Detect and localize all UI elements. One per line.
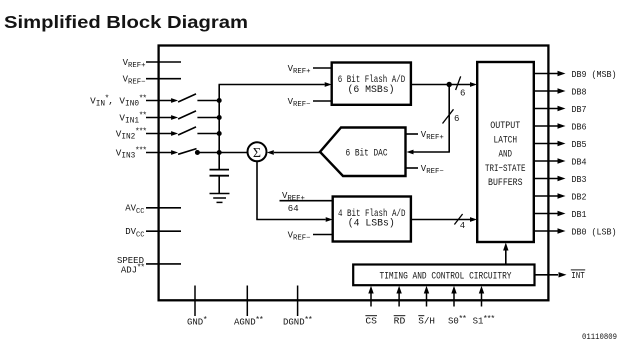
chip outline xyxy=(159,46,549,301)
svg-text:01110809: 01110809 xyxy=(582,332,617,342)
wire VIN0 stub xyxy=(146,100,172,102)
svg-text:INT: INT xyxy=(571,271,585,281)
junction dot bus row2 xyxy=(217,131,222,136)
junction dot bus row1 xyxy=(217,115,222,120)
wire DB3 xyxy=(534,178,558,180)
pin S/H stem xyxy=(426,293,428,307)
6-bit DAC shape xyxy=(320,128,406,177)
overline INT xyxy=(571,269,585,271)
switch S3 blade (closed) xyxy=(178,149,196,155)
wire DVCC stub xyxy=(146,230,181,232)
summing node sigma xyxy=(248,142,267,161)
svg-text:CC: CC xyxy=(136,231,144,239)
svg-text:DB3: DB3 xyxy=(572,175,587,185)
wire DB9 xyxy=(534,73,558,75)
svg-text:Simplified Block Diagram: Simplified Block Diagram xyxy=(4,12,248,32)
svg-text:AND: AND xyxy=(499,150,513,161)
arrowhead timing to latch xyxy=(503,243,508,251)
arrowhead DB9 xyxy=(558,71,566,76)
svg-text:AGND**: AGND** xyxy=(234,315,263,328)
svg-text:S/H: S/H xyxy=(418,317,435,327)
wire S2 to bus xyxy=(197,133,219,135)
arrowhead into latch (6) xyxy=(470,82,477,87)
svg-text:DV: DV xyxy=(125,227,136,237)
svg-text:DB2: DB2 xyxy=(572,192,587,202)
wire sigma down xyxy=(256,162,258,220)
svg-text:VREF−: VREF− xyxy=(421,164,444,176)
pin S0 stem xyxy=(453,293,455,307)
wire DB2 xyxy=(534,195,558,197)
svg-text:DB1: DB1 xyxy=(572,210,587,220)
arrowhead into 6-bit flash xyxy=(325,82,332,87)
svg-text:DB6: DB6 xyxy=(572,122,587,132)
svg-text:VIN*, VIN0**: VIN*, VIN0** xyxy=(90,93,146,108)
svg-text:DGND**: DGND** xyxy=(283,315,312,328)
arrowhead DB5 xyxy=(558,141,566,146)
output latch box xyxy=(477,62,534,242)
arrowhead into sigma xyxy=(267,150,274,155)
wire DB1 xyxy=(534,213,558,215)
4-bit flash A/D box xyxy=(333,197,411,242)
overline RD xyxy=(394,315,406,317)
svg-text:Σ: Σ xyxy=(253,146,261,161)
arrowhead RD xyxy=(396,286,401,294)
svg-text:VIN2***: VIN2*** xyxy=(116,126,147,141)
arrowhead S1 xyxy=(479,286,484,294)
wire SPEED ADJ stub xyxy=(146,263,181,265)
wire INT xyxy=(535,274,559,276)
arrowhead DB7 xyxy=(558,106,566,111)
switch S1 blade xyxy=(178,111,196,119)
wire mux bus vertical xyxy=(218,85,220,170)
wire bus to 6-bit flash xyxy=(219,84,325,86)
bus slash 6 (horizontal line) xyxy=(456,76,461,90)
wire VREF+/64 to 4-bit flash xyxy=(280,200,333,202)
switch S1 arrowhead xyxy=(171,115,178,120)
wire VREF+ stub to flash1 xyxy=(313,67,332,69)
svg-text:OUTPUT: OUTPUT xyxy=(490,121,520,132)
wire VREF+ stub xyxy=(146,61,181,63)
svg-text:LATCH: LATCH xyxy=(494,135,518,146)
wire VREF+ stub DAC xyxy=(406,133,419,135)
wire DB0 xyxy=(534,230,558,232)
pin AGND stub xyxy=(246,286,248,317)
pin CS stem xyxy=(370,293,372,307)
switch S0 blade xyxy=(178,94,196,102)
arrowhead into latch (4) xyxy=(470,217,477,222)
wire VIN3 stub xyxy=(146,152,172,154)
arrowhead DB4 xyxy=(558,158,566,163)
pin RD stem xyxy=(398,293,400,307)
wire VREF- stub xyxy=(146,78,181,80)
ground symbol xyxy=(210,193,230,195)
switch S3 arrowhead xyxy=(171,150,178,155)
wire sigma to 4-bit flash xyxy=(256,219,325,221)
svg-text:AV: AV xyxy=(125,204,136,214)
wire S1 to bus xyxy=(197,117,219,119)
pin S1 stem xyxy=(481,293,483,307)
svg-text:RD: RD xyxy=(394,317,406,327)
junction dot bus row0 xyxy=(217,98,222,103)
switch S0 arrowhead xyxy=(171,98,178,103)
wire DB7 xyxy=(534,108,558,110)
arrowhead INT xyxy=(559,272,567,277)
svg-text:BUFFERS: BUFFERS xyxy=(488,178,523,189)
svg-text:VREF−: VREF− xyxy=(123,75,146,87)
svg-text:VREF+: VREF+ xyxy=(421,130,444,142)
svg-text:CC: CC xyxy=(136,208,144,216)
timing and control box xyxy=(353,265,534,286)
wire S0 to bus xyxy=(197,100,219,102)
svg-text:S0**: S0** xyxy=(448,314,466,327)
wire S3 to sigma xyxy=(197,152,247,154)
wire to DAC horizontal xyxy=(414,151,450,153)
wire DAC to sigma xyxy=(274,152,320,154)
svg-text:ADJ**: ADJ** xyxy=(121,263,144,276)
junction dot bus row3 xyxy=(217,150,222,155)
arrowhead S0 xyxy=(451,286,456,294)
svg-text:CS: CS xyxy=(365,317,377,327)
wire VREF- stub DAC xyxy=(406,167,419,169)
overline S xyxy=(418,315,424,317)
svg-text:(4 LSBs): (4 LSBs) xyxy=(348,218,395,230)
capacitor plates xyxy=(210,169,230,171)
svg-text:VREF+: VREF+ xyxy=(123,58,146,70)
svg-text:TIMING AND CONTROL CIRCUITRY: TIMING AND CONTROL CIRCUITRY xyxy=(380,271,512,282)
wire to DAC vertical xyxy=(448,85,450,153)
svg-text:S1***: S1*** xyxy=(473,314,495,327)
pin GND stub xyxy=(194,286,196,317)
6-bit flash A/D box xyxy=(332,63,411,105)
arrowhead DB2 xyxy=(558,193,566,198)
svg-text:VREF+: VREF+ xyxy=(288,64,311,76)
svg-text:GND*: GND* xyxy=(187,315,207,328)
junction dot flash1 output xyxy=(447,82,452,87)
wire AVCC stub xyxy=(146,207,181,209)
arrowhead DB0 xyxy=(558,228,566,233)
svg-text:64: 64 xyxy=(288,204,299,214)
svg-text:DB5: DB5 xyxy=(572,140,587,150)
arrowhead DB1 xyxy=(558,211,566,216)
wire flash2 output xyxy=(411,219,470,221)
wire VIN1 stub xyxy=(146,117,172,119)
wire timing to latch xyxy=(505,250,507,265)
svg-text:VIN1**: VIN1** xyxy=(119,110,146,125)
svg-text:6 Bit DAC: 6 Bit DAC xyxy=(346,147,388,159)
arrowhead DB3 xyxy=(558,176,566,181)
arrowhead into DAC xyxy=(407,150,414,155)
wire VREF- stub to flash1 xyxy=(313,100,332,102)
switch S2 blade xyxy=(178,127,196,135)
wire DB5 xyxy=(534,143,558,145)
arrowhead into 4-bit flash xyxy=(326,217,333,222)
svg-text:VREF−: VREF− xyxy=(288,230,311,242)
arrowhead DB8 xyxy=(558,88,566,93)
svg-text:DB4: DB4 xyxy=(572,157,587,167)
junction dot S3 xyxy=(195,150,200,155)
svg-text:TRI−STATE: TRI−STATE xyxy=(485,164,526,175)
svg-text:DB8: DB8 xyxy=(572,87,587,97)
wire DB8 xyxy=(534,90,558,92)
wire DB4 xyxy=(534,160,558,162)
overline CS xyxy=(365,315,377,317)
svg-text:DB0 (LSB): DB0 (LSB) xyxy=(572,227,617,237)
wire capacitor to ground xyxy=(218,176,220,194)
svg-text:VIN3***: VIN3*** xyxy=(116,145,147,160)
svg-text:4: 4 xyxy=(460,221,465,231)
svg-text:(6 MSBs): (6 MSBs) xyxy=(348,84,395,96)
bus slash 6 (vertical line) xyxy=(443,109,454,123)
svg-text:6: 6 xyxy=(460,89,465,99)
arrowhead S/H xyxy=(424,286,429,294)
wire VIN2 stub xyxy=(146,133,172,135)
arrowhead CS xyxy=(368,286,373,294)
wire flash1 output xyxy=(411,84,470,86)
arrowhead DB6 xyxy=(558,123,566,128)
wire DB6 xyxy=(534,125,558,127)
svg-text:6: 6 xyxy=(454,114,459,124)
svg-text:DB9 (MSB): DB9 (MSB) xyxy=(572,70,617,80)
svg-text:DB7: DB7 xyxy=(572,105,587,115)
pin DGND stub xyxy=(297,286,299,317)
switch S2 arrowhead xyxy=(171,131,178,136)
wire VREF- stub to flash2 xyxy=(313,234,333,236)
svg-text:VREF−: VREF− xyxy=(288,97,311,109)
bus slash 4 xyxy=(454,214,462,225)
